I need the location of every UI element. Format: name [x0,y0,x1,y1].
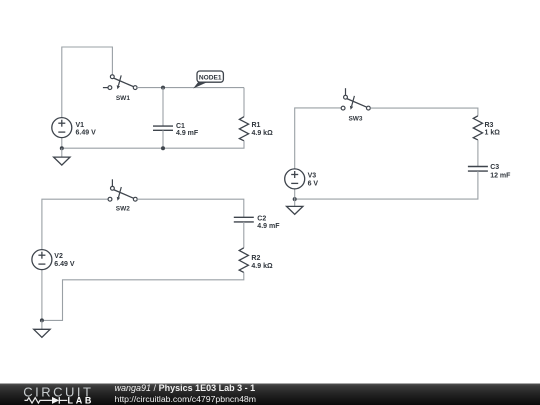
svg-text:4.9 kΩ: 4.9 kΩ [252,130,274,137]
wire R1 bottom to V1- [62,141,244,148]
voltage source V1 [52,118,96,138]
junction V2 ground junction [40,318,44,322]
svg-text:R2: R2 [251,255,260,262]
svg-text:SW2: SW2 [116,206,130,213]
svg-text:6.49 V: 6.49 V [54,261,75,268]
svg-text:http://circuitlab.com/c4797pbn: http://circuitlab.com/c4797pbncn48m [115,394,257,404]
wire C2 to R2 [243,222,245,248]
CircuitLab logo [23,384,94,405]
svg-text:C1: C1 [176,123,185,130]
wire V2+ to SW2 [42,199,108,249]
capacitor C3 [468,164,511,179]
wire R2 bottom return [42,272,244,320]
svg-text:SW3: SW3 [348,115,362,122]
svg-text:12 mF: 12 mF [490,172,511,179]
wire C3 bottom return [295,171,478,199]
resistor R3 [473,116,500,140]
ground GND1 [54,148,70,165]
capacitor C1 [153,123,199,137]
svg-text:4.9 mF: 4.9 mF [257,223,280,230]
ground GND2 [34,320,50,337]
wire R3 to C3 [477,140,479,167]
switch SW3 [341,88,370,122]
svg-text:R3: R3 [485,122,494,129]
resistor R1 [239,117,273,141]
svg-text:R1: R1 [252,122,261,129]
svg-text:V1: V1 [76,122,85,129]
ground GND3 [287,198,303,215]
svg-text:4.9 kΩ: 4.9 kΩ [251,263,273,270]
svg-text:6 V: 6 V [308,180,319,187]
svg-text:C2: C2 [257,216,266,223]
svg-text:1 kΩ: 1 kΩ [485,130,501,137]
svg-text:V2: V2 [54,253,63,260]
wire C1 bottom lead [162,130,164,148]
wire V3+ to SW3 [295,108,342,169]
wire V1+ to SW1 feed [62,47,113,118]
wire V1 bottom lead [61,138,63,149]
node flag NODE1 [193,71,223,89]
wire C1 top lead [162,88,164,127]
wire V3 bottom lead [294,189,296,199]
svg-text:NODE1: NODE1 [199,74,222,81]
svg-text:6.49 V: 6.49 V [76,130,97,137]
svg-text:SW1: SW1 [116,95,130,102]
svg-text:wanga91 / Physics 1E03 Lab 3 -: wanga91 / Physics 1E03 Lab 3 - 1 [115,383,256,393]
voltage source V3 [285,169,319,189]
voltage source V2 [32,250,75,270]
wire SW2 to C2 top [137,199,244,217]
wire SW1 to R1 top [137,87,244,89]
svg-text:4.9 mF: 4.9 mF [176,130,199,137]
svg-text:C3: C3 [490,164,499,171]
junction C1 bottom junction [161,146,165,150]
wire SW3 to R3 top [370,108,478,116]
wire V2 bottom lead [41,270,43,321]
junction V1 ground junction [60,146,64,150]
svg-text:LAB: LAB [68,395,95,405]
resistor R2 [239,248,273,273]
wire R1 top lead [243,88,245,117]
switch SW2 [108,179,137,212]
switch SW1 [103,75,137,102]
capacitor C2 [234,216,280,231]
junction node1 at C1 top [161,86,165,90]
svg-text:V3: V3 [308,173,317,180]
junction V3 ground junction [293,197,297,201]
